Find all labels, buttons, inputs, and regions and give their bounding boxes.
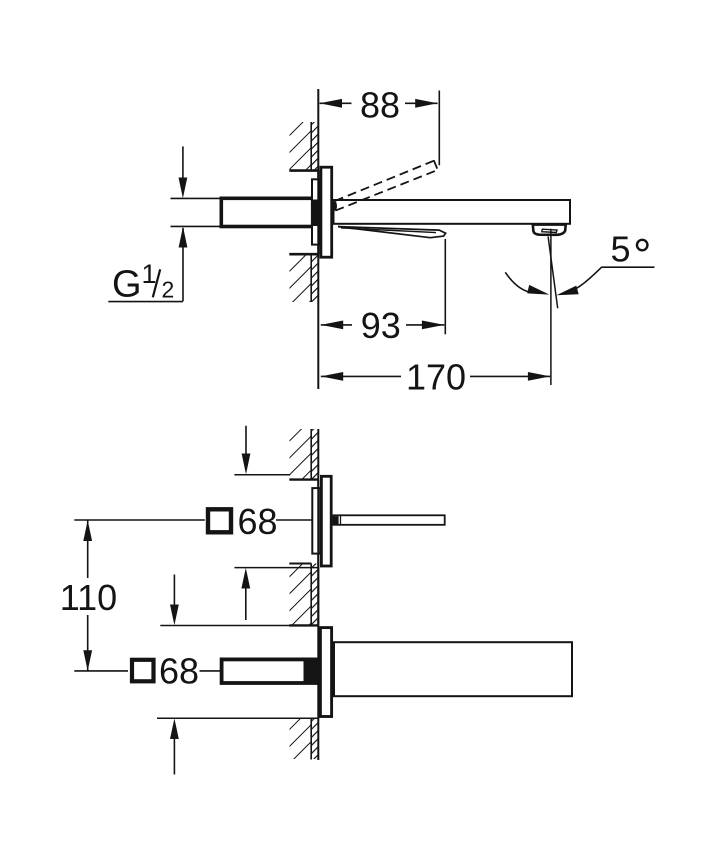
svg-text:110: 110 [60,577,117,618]
svg-text:93: 93 [361,305,401,346]
svg-text:5: 5 [611,228,631,269]
svg-text:G: G [112,264,142,306]
svg-text:2: 2 [162,277,175,303]
svg-text:°: ° [633,229,651,281]
svg-text:170: 170 [406,357,466,398]
svg-text:88: 88 [360,85,400,126]
svg-text:68: 68 [238,501,278,542]
svg-text:1: 1 [142,259,157,289]
svg-text:68: 68 [159,651,199,692]
